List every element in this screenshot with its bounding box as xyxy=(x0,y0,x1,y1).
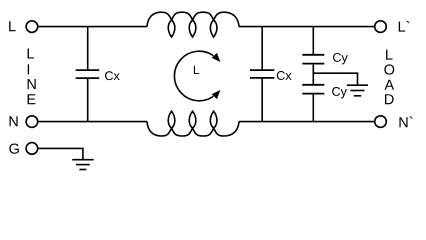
label G xyxy=(9,143,18,153)
label L` xyxy=(399,21,410,32)
terminal L` xyxy=(375,21,387,33)
capacitor Cy top xyxy=(302,27,324,64)
wire top right xyxy=(239,26,374,28)
label LOAD xyxy=(384,50,394,105)
label LINE xyxy=(28,49,36,105)
choke circulation arc xyxy=(174,51,213,101)
label Cy top xyxy=(333,53,348,64)
wire G to earth xyxy=(38,148,83,159)
inductor winding top xyxy=(147,12,239,37)
wire bottom right xyxy=(239,121,374,123)
wire Cy midpoint to earth xyxy=(313,73,357,85)
terminal N` xyxy=(375,116,387,128)
ground (earth) at G xyxy=(72,160,93,170)
capacitor Cx left xyxy=(76,27,100,122)
label L xyxy=(9,21,15,31)
label Cy bottom xyxy=(332,87,347,98)
wire top left xyxy=(38,26,147,28)
label Cx right xyxy=(277,71,292,80)
arrowhead top xyxy=(212,53,221,62)
terminal N xyxy=(26,116,38,128)
inductor winding bottom xyxy=(147,111,239,136)
label Cx left xyxy=(105,71,120,80)
label L choke xyxy=(194,66,199,74)
ground (earth) at Cy midpoint xyxy=(347,85,368,96)
arrowhead bottom xyxy=(212,90,221,99)
label N xyxy=(10,116,18,126)
wire bottom left xyxy=(38,121,147,123)
label N` xyxy=(399,117,412,128)
terminal L xyxy=(26,21,38,33)
capacitor Cx right xyxy=(250,27,274,122)
wire Cy midpoint xyxy=(312,64,314,85)
terminal G xyxy=(26,143,38,155)
capacitor Cy bottom xyxy=(302,85,324,122)
